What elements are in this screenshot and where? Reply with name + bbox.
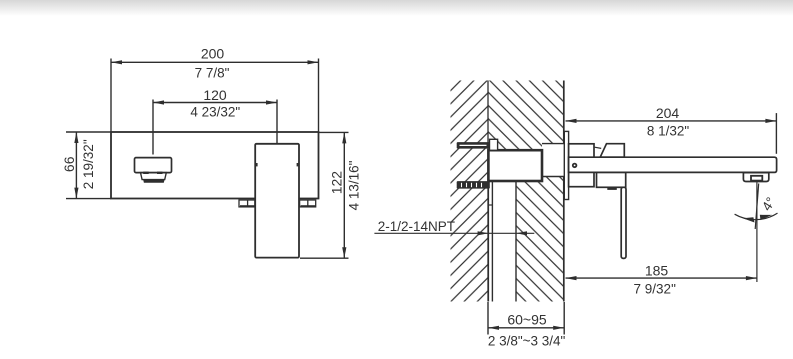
handle side ticks xyxy=(256,163,258,166)
NPT leader line xyxy=(374,232,534,234)
stream 4deg tilted line xyxy=(755,184,759,230)
lever bar xyxy=(621,187,626,258)
dim 204 line xyxy=(566,120,777,122)
dim 66 extension lines xyxy=(66,131,111,133)
dim 120 extension lines xyxy=(152,100,154,155)
svg-text:2 3/8"~3 3/4": 2 3/8"~3 3/4" xyxy=(488,334,566,349)
aerator insert xyxy=(751,176,762,181)
right mounting tab xyxy=(300,200,316,207)
left mounting tab xyxy=(239,200,255,207)
spout (plan) xyxy=(135,158,172,173)
arc arrow left xyxy=(743,217,755,222)
set screw dot xyxy=(572,163,577,168)
arc arrow right xyxy=(760,215,772,220)
supply pipe column (white) xyxy=(488,181,516,302)
svg-text:122: 122 xyxy=(329,171,345,195)
svg-text:4 13/16": 4 13/16" xyxy=(347,160,362,210)
svg-text:60~95: 60~95 xyxy=(507,311,547,327)
dim 122 extension lines xyxy=(319,131,349,133)
svg-text:200: 200 xyxy=(201,45,225,61)
handle grip (top piece) xyxy=(600,144,624,158)
dim 66 line xyxy=(75,132,77,199)
dim 60~95 line xyxy=(488,327,564,329)
wall passage of valve (white channel) xyxy=(542,144,565,177)
svg-text:2 19/32": 2 19/32" xyxy=(81,139,96,189)
svg-text:204: 204 xyxy=(656,105,680,121)
dim 185 line xyxy=(566,277,757,279)
svg-text:7 9/32": 7 9/32" xyxy=(634,282,677,297)
trim body box xyxy=(569,144,594,187)
upper supply fitting xyxy=(457,142,490,149)
dim 200 line xyxy=(111,61,319,63)
dim 60~95 extension lines xyxy=(487,302,489,335)
svg-text:4 23/32": 4 23/32" xyxy=(190,105,240,120)
aerator top ticks xyxy=(143,172,149,174)
valve body xyxy=(488,150,542,181)
lever dark notch xyxy=(607,187,617,190)
plate outline xyxy=(111,132,319,199)
wall hatch right layer xyxy=(488,81,564,302)
svg-text:120: 120 xyxy=(203,87,227,103)
svg-text:66: 66 xyxy=(61,156,77,172)
svg-text:2-1/2-14NPT: 2-1/2-14NPT xyxy=(378,219,455,234)
wall hatch left layer xyxy=(451,81,489,302)
lower supply fitting xyxy=(457,181,490,189)
dim 204 extension line xyxy=(775,113,777,154)
valve top notch xyxy=(490,139,498,150)
svg-text:8 1/32": 8 1/32" xyxy=(647,123,690,138)
svg-text:7 7/8": 7 7/8" xyxy=(195,66,230,81)
dim 120 line xyxy=(153,102,277,104)
svg-text:185: 185 xyxy=(645,263,669,279)
spout bar (side) xyxy=(569,157,777,172)
aerator trapezoid (plan) xyxy=(141,173,167,180)
handle gap line xyxy=(595,147,602,148)
lever collar under spout xyxy=(597,172,626,187)
dim 200 extension lines xyxy=(110,59,112,133)
escutcheon plate xyxy=(564,131,568,199)
swivel arc xyxy=(735,213,778,220)
aerator dark lip xyxy=(143,179,165,183)
stream vertical line xyxy=(756,182,758,282)
handle (plan) xyxy=(255,144,299,258)
wall face line xyxy=(563,81,565,302)
dim 122 line xyxy=(343,132,345,258)
aerator (side) xyxy=(743,173,768,182)
wall layer joint line xyxy=(487,81,489,302)
top shadow gradient xyxy=(0,0,793,16)
